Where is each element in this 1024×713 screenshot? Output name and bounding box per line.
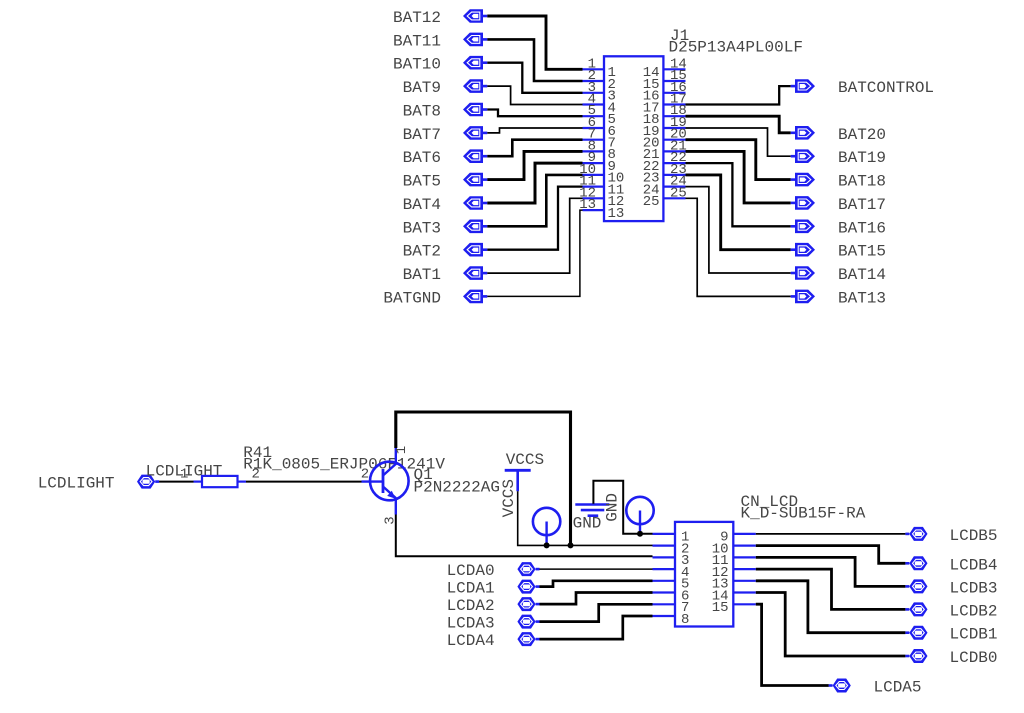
J1 pin 11 [579, 174, 624, 199]
wire J1 pin 17 to BATCONTROL [686, 86, 791, 104]
transistor Q1 [362, 448, 409, 515]
J1 pin 3 [583, 80, 616, 105]
J1 pin 1 [583, 56, 616, 81]
port LCDA5 [829, 679, 851, 693]
wire J1 pin 24 to BAT14 [686, 187, 791, 273]
port LCDA2 [517, 597, 539, 611]
J1 pin 25 [643, 185, 687, 210]
J1 pin 8 [583, 138, 616, 163]
port BAT2 [463, 243, 487, 257]
J1 pin 10 [579, 162, 624, 187]
port BATGND [463, 290, 487, 304]
svg-text:VCCS: VCCS [500, 479, 518, 517]
svg-text:2: 2 [252, 466, 260, 482]
port BAT9 [463, 79, 487, 93]
svg-text:LCDB2: LCDB2 [950, 602, 998, 620]
svg-text:2: 2 [361, 466, 369, 482]
J1 pin 12 [579, 185, 624, 210]
J1 pin 2 [583, 68, 616, 93]
wire J1 pin 19 to BAT19 [686, 128, 791, 156]
svg-text:BAT7: BAT7 [403, 126, 441, 144]
svg-text:BAT6: BAT6 [403, 149, 441, 167]
wire J1 pin 20 to BAT18 [686, 140, 791, 180]
power symbol (circle) on VCCS rail [533, 508, 560, 546]
svg-text:LCDLIGHT: LCDLIGHT [38, 475, 115, 493]
CN_LCD pin 9 [720, 530, 756, 546]
svg-text:GND: GND [573, 515, 602, 533]
port BAT3 [463, 220, 487, 234]
J1 pin 17 [643, 92, 687, 117]
port BAT13 [791, 290, 815, 304]
wire LCDA2 to CN_LCD pin 6 [540, 593, 653, 605]
svg-text:13: 13 [608, 206, 625, 222]
wire CN_LCD pin 13 to LCDB1 [756, 581, 906, 633]
wire BAT9 to J1 pin 4 [487, 86, 582, 104]
wire J1 pin 22 to BAT16 [686, 163, 791, 226]
port LCDB5 [905, 527, 927, 541]
svg-text:LCDA1: LCDA1 [447, 580, 495, 598]
svg-text:LCDA0: LCDA0 [447, 562, 495, 580]
wire CN_LCD pin 11 to LCDB3 [756, 557, 906, 586]
port LCDB3 [905, 579, 927, 593]
port LCDB1 [905, 626, 927, 640]
wire LCDLIGHT port to R41 pin 1 [159, 481, 193, 483]
svg-text:BAT5: BAT5 [403, 173, 441, 191]
wire LCDA4 to CN_LCD pin 8 [540, 616, 653, 639]
svg-text:BAT20: BAT20 [838, 126, 886, 144]
J1 pin 13 [579, 197, 624, 222]
wire BAT3 to J1 pin 10 [487, 175, 582, 226]
J1 pin 6 [583, 115, 616, 140]
svg-text:LCDA5: LCDA5 [874, 679, 922, 697]
svg-text:25: 25 [643, 194, 660, 210]
wire BAT4 to J1 pin 9 [487, 163, 582, 203]
svg-text:1: 1 [180, 466, 188, 482]
wire CN_LCD pin 14 to LCDB0 [756, 593, 906, 657]
port BAT6 [463, 149, 487, 163]
power symbol (circle) on GND wire [626, 497, 653, 534]
CN_LCD pin 1 [653, 530, 690, 546]
J1 pin 14 [643, 56, 687, 81]
connector J1 body [604, 56, 663, 221]
port BAT1 [463, 266, 487, 280]
J1 pin 15 [643, 68, 687, 93]
svg-text:BAT14: BAT14 [838, 266, 886, 284]
port BAT7 [463, 126, 487, 140]
CN_LCD pin 4 [653, 565, 690, 581]
svg-text:LCDB5: LCDB5 [950, 527, 998, 545]
wire LCDA3 to CN_LCD pin 7 [540, 604, 653, 621]
CN_LCD pin 10 [712, 541, 756, 557]
svg-text:BAT4: BAT4 [403, 196, 441, 214]
connector CN_LCD body [675, 522, 733, 627]
port BAT19 [791, 149, 815, 163]
svg-text:13: 13 [579, 197, 596, 213]
svg-text:BAT8: BAT8 [403, 103, 441, 121]
port BAT5 [463, 173, 487, 187]
svg-text:BAT19: BAT19 [838, 149, 886, 167]
svg-text:LCDB3: LCDB3 [950, 579, 998, 597]
CN_LCD pin 13 [712, 577, 756, 593]
J1 pin 4 [583, 92, 616, 117]
port BAT11 [463, 33, 487, 47]
wire CN_LCD pin 10 to LCDB4 [756, 546, 906, 564]
J1 pin 5 [583, 103, 616, 128]
wire BAT6 to J1 pin 7 [487, 140, 582, 157]
wire LCDA0 to CN_LCD pin 4 [540, 568, 653, 570]
CN_LCD pin 12 [712, 565, 756, 581]
port BAT17 [791, 196, 815, 210]
wire BATGND to J1 pin 13 [487, 210, 582, 296]
CN_LCD pin 11 [712, 553, 756, 569]
svg-text:BAT12: BAT12 [393, 9, 441, 27]
wire BAT7 to J1 pin 6 [487, 128, 582, 133]
svg-text:BATCONTROL: BATCONTROL [838, 79, 934, 97]
svg-text:BAT13: BAT13 [838, 289, 886, 307]
port BAT16 [791, 220, 815, 234]
wire BAT10 to J1 pin 3 [487, 63, 582, 93]
svg-text:LCDB4: LCDB4 [950, 556, 998, 574]
port LCDB4 [905, 556, 927, 570]
port LCDA4 [517, 632, 539, 646]
port BAT20 [791, 126, 815, 140]
svg-text:LCDB0: LCDB0 [950, 649, 998, 667]
junction on VCCS rail at circle stem [544, 542, 550, 548]
wire J1 pin 21 to BAT17 [686, 151, 791, 203]
wire J1 pin 23 to BAT15 [686, 175, 791, 250]
wire CN_LCD pin 12 to LCDB2 [756, 569, 906, 609]
port LCDA1 [517, 580, 539, 594]
svg-text:BAT18: BAT18 [838, 173, 886, 191]
svg-text:BAT9: BAT9 [403, 79, 441, 97]
svg-text:D25P13A4PL00LF: D25P13A4PL00LF [669, 38, 803, 56]
wire BAT2 to J1 pin 11 [487, 187, 582, 250]
resistor R41 [194, 476, 247, 487]
CN_LCD pin 6 [653, 588, 690, 604]
svg-text:BAT17: BAT17 [838, 196, 886, 214]
port LCDA3 [517, 615, 539, 629]
svg-text:BAT2: BAT2 [403, 243, 441, 261]
port BAT14 [791, 266, 815, 280]
port BAT4 [463, 196, 487, 210]
ground symbol GND [575, 505, 609, 516]
svg-text:GND: GND [604, 493, 622, 522]
svg-text:BAT16: BAT16 [838, 219, 886, 237]
wire CN_LCD pin 15 to LCDA5 [756, 604, 829, 685]
CN_LCD pin 5 [653, 577, 690, 593]
svg-text:15: 15 [712, 600, 729, 616]
svg-text:K_D-SUB15F-RA: K_D-SUB15F-RA [741, 504, 866, 522]
port BATCONTROL [791, 79, 815, 93]
svg-text:BAT11: BAT11 [393, 32, 441, 50]
J1 pin 18 [643, 103, 687, 128]
J1 pin 24 [643, 174, 687, 199]
port BAT12 [463, 9, 487, 23]
port BAT15 [791, 243, 815, 257]
port LCDLIGHT [137, 475, 159, 489]
svg-text:LCDA2: LCDA2 [447, 597, 495, 615]
wire Q1 collector loop to VCCS rail [396, 412, 571, 545]
J1 pin 20 [643, 127, 687, 152]
port LCDB0 [905, 649, 927, 663]
CN_LCD pin 14 [712, 588, 756, 604]
J1 pin 9 [583, 150, 616, 175]
port BAT10 [463, 56, 487, 70]
CN_LCD pin 3 [653, 553, 690, 569]
power symbol VCCS (bar) [505, 470, 531, 491]
svg-text:VCCS: VCCS [506, 451, 544, 469]
svg-text:8: 8 [681, 612, 689, 628]
wire BAT12 to J1 pin 1 [487, 16, 582, 69]
wire BAT5 to J1 pin 8 [487, 151, 582, 179]
CN_LCD pin 15 [712, 600, 756, 616]
CN_LCD pin 2 [653, 541, 690, 557]
J1 pin 16 [643, 80, 687, 105]
wire J1 pin 18 to BAT20 [686, 116, 791, 133]
svg-text:BATGND: BATGND [383, 289, 441, 307]
J1 pin 22 [643, 150, 687, 175]
svg-text:BAT1: BAT1 [403, 266, 441, 284]
wire VCCS to CN_LCD pin 2 rail [518, 491, 653, 545]
J1 pin 21 [643, 138, 687, 163]
port LCDA0 [517, 562, 539, 576]
wire BAT8 to J1 pin 5 [487, 110, 582, 117]
wire J1 pin 25 to BAT13 [686, 198, 791, 296]
svg-text:LCDA3: LCDA3 [447, 615, 495, 633]
svg-text:LCDB1: LCDB1 [950, 626, 998, 644]
wire CN_LCD pin 9 to LCDB5 [756, 533, 906, 535]
svg-text:25: 25 [670, 185, 687, 201]
wire Q1 emitter to CN_LCD pin 3 [396, 515, 653, 557]
svg-text:BAT3: BAT3 [403, 219, 441, 237]
J1 pin 19 [643, 115, 687, 140]
wire LCDA1 to CN_LCD pin 5 [540, 581, 653, 587]
J1 pin 23 [643, 162, 687, 187]
J1 pin 7 [583, 127, 616, 152]
CN_LCD pin 8 [653, 612, 690, 628]
CN_LCD pin 7 [653, 600, 690, 616]
svg-text:BAT10: BAT10 [393, 56, 441, 74]
wire BAT11 to J1 pin 2 [487, 39, 582, 81]
svg-text:LCDA4: LCDA4 [447, 632, 495, 650]
wire R41 pin 2 to Q1 base [246, 481, 362, 483]
wire GND to CN_LCD pin 1 [593, 481, 652, 534]
port BAT8 [463, 103, 487, 117]
wire BAT1 to J1 pin 12 [487, 198, 582, 273]
junction on VCCS rail at collector loop [568, 542, 574, 548]
junction on GND wire at circle stem [637, 531, 643, 537]
svg-text:BAT15: BAT15 [838, 243, 886, 261]
svg-text:P2N2222AG: P2N2222AG [414, 479, 500, 497]
port LCDB2 [905, 602, 927, 616]
port BAT18 [791, 173, 815, 187]
